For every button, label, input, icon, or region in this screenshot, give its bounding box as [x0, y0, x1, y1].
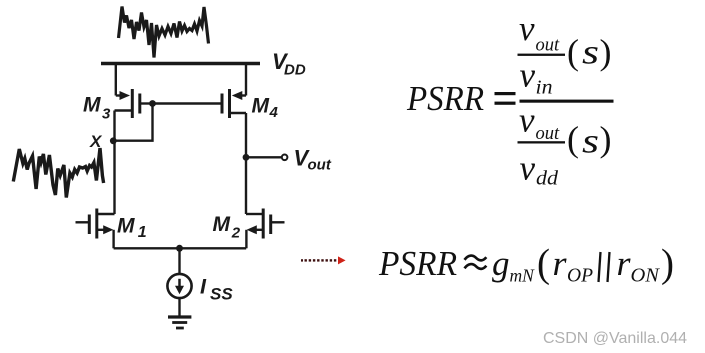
svg-text:1: 1	[138, 224, 147, 241]
svg-text:): )	[600, 119, 612, 159]
svg-text:X: X	[89, 132, 103, 151]
svg-text:SS: SS	[210, 284, 233, 303]
svg-text:v: v	[520, 55, 536, 94]
svg-text:out: out	[536, 35, 561, 55]
svg-text:2: 2	[231, 224, 241, 241]
svg-text:I: I	[200, 275, 207, 299]
svg-text:out: out	[536, 124, 561, 144]
svg-text:): )	[661, 240, 674, 285]
svg-text:g: g	[492, 244, 510, 283]
svg-text:(: (	[537, 240, 550, 285]
svg-text:M: M	[252, 95, 270, 118]
svg-text:mN: mN	[510, 266, 536, 286]
svg-text:(: (	[567, 119, 579, 159]
svg-text:): )	[600, 32, 612, 72]
svg-text:M: M	[213, 213, 231, 236]
svg-text:PSRR: PSRR	[378, 244, 457, 283]
svg-text:dd: dd	[536, 168, 559, 190]
svg-text:OP: OP	[567, 266, 593, 287]
svg-text:s: s	[582, 32, 599, 71]
svg-text:in: in	[536, 77, 553, 99]
svg-text:4: 4	[269, 104, 279, 121]
svg-text:3: 3	[102, 106, 111, 123]
svg-text:PSRR: PSRR	[406, 79, 484, 118]
svg-text:CSDN @Vanilla.044: CSDN @Vanilla.044	[543, 330, 687, 347]
svg-text:r: r	[617, 244, 631, 283]
svg-text:v: v	[520, 149, 536, 188]
svg-text:M: M	[117, 215, 135, 238]
svg-text:v: v	[519, 9, 535, 48]
svg-text:s: s	[582, 122, 599, 161]
svg-text:v: v	[519, 101, 535, 140]
svg-text:M: M	[83, 94, 101, 117]
svg-text:ON: ON	[631, 265, 661, 287]
svg-text:out: out	[308, 157, 332, 174]
svg-text:DD: DD	[284, 62, 306, 79]
svg-text:(: (	[567, 32, 579, 72]
svg-text:r: r	[553, 244, 567, 283]
